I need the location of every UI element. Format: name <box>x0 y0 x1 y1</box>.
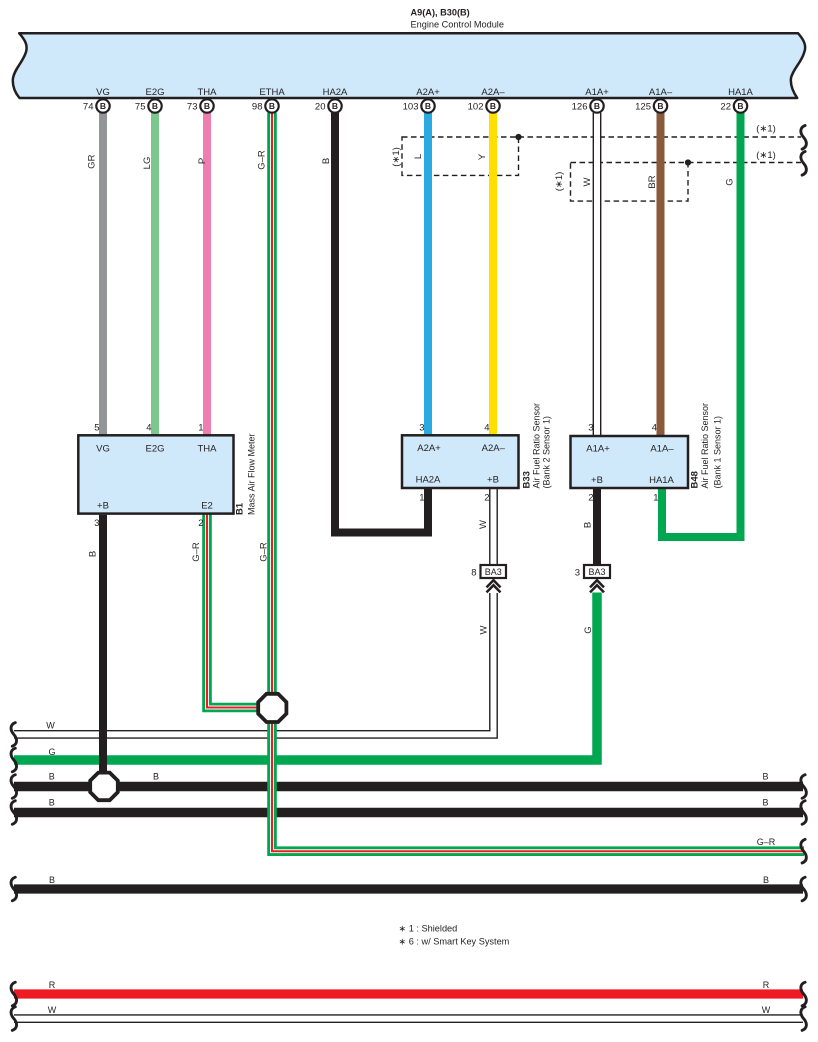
svg-text:VG: VG <box>96 87 110 98</box>
wire G-R: junction J1 down and right to edge <box>272 720 804 851</box>
continuation brace bus B1 left <box>11 775 17 799</box>
shield dashed box around L and Y wires (*1) <box>402 137 519 175</box>
continuation brace wire G-R right <box>801 839 807 863</box>
svg-text:126: 126 <box>572 102 588 113</box>
svg-text:HA2A: HA2A <box>323 87 348 98</box>
wire B: ECM HA2A 20 to B33 pin 1 <box>335 113 428 533</box>
svg-text:+B: +B <box>487 475 499 486</box>
svg-text:B: B <box>100 101 106 111</box>
svg-text:B: B <box>583 522 594 528</box>
svg-text:103: 103 <box>403 102 419 113</box>
svg-text:HA2A: HA2A <box>416 475 441 486</box>
junction J1 octagon (G-R splice) <box>258 694 286 722</box>
svg-text:B: B <box>762 797 768 807</box>
svg-text:B: B <box>762 771 768 781</box>
continuation brace shield line 2 right <box>801 152 807 176</box>
bus W: shield wire from BA3 pin 8 to left edge <box>14 593 494 735</box>
continuation brace bus B2 right <box>801 801 807 825</box>
svg-text:Y: Y <box>477 153 488 160</box>
wire P: ECM THA 73 to B1 pin 1 <box>203 113 211 436</box>
bus B ground 2 <box>14 808 803 818</box>
svg-text:2: 2 <box>484 493 489 504</box>
svg-text:W: W <box>582 177 593 186</box>
svg-text:Air Fuel Ratio Sensor: Air Fuel Ratio Sensor <box>532 403 542 489</box>
svg-text:B: B <box>594 101 600 111</box>
shield dashed line 2 to right edge (*1) <box>688 162 801 164</box>
wire LG: ECM E2G 75 to B1 pin 4 <box>151 113 159 436</box>
wire B: B1 +B pin 3 down to junction J2 <box>99 515 107 780</box>
svg-text:3: 3 <box>575 568 580 579</box>
svg-text:W: W <box>478 520 489 529</box>
svg-text:4: 4 <box>484 423 489 434</box>
svg-text:A1A+: A1A+ <box>585 87 609 98</box>
svg-text:74: 74 <box>83 102 94 113</box>
continuation brace bus B3 right <box>801 877 807 901</box>
svg-text:(∗1): (∗1) <box>756 150 776 161</box>
svg-text:∗ 6 : w/ Smart Key System: ∗ 6 : w/ Smart Key System <box>399 937 510 947</box>
connector BA3 pin 3 <box>584 565 610 578</box>
wire GR: ECM VG 74 to B1 pin 5 <box>99 113 107 436</box>
svg-text:B: B <box>657 101 663 111</box>
svg-text:W: W <box>762 1005 771 1015</box>
svg-text:G–R: G–R <box>757 837 776 847</box>
svg-text:HA1A: HA1A <box>649 475 674 486</box>
svg-text:B48: B48 <box>690 471 701 488</box>
svg-text:B: B <box>88 551 99 557</box>
wire G: ECM HA1A 22 to B48 pin 1 <box>662 113 741 537</box>
svg-text:B: B <box>49 797 55 807</box>
svg-text:Engine Control Module: Engine Control Module <box>411 19 504 29</box>
svg-text:B: B <box>49 771 55 781</box>
svg-text:B: B <box>332 101 338 111</box>
continuation brace bus B1 right <box>801 775 807 799</box>
svg-text:102: 102 <box>468 102 484 113</box>
svg-text:B: B <box>763 875 769 885</box>
svg-text:+B: +B <box>97 501 109 512</box>
svg-text:(∗1): (∗1) <box>554 172 565 192</box>
svg-text:B: B <box>49 875 55 885</box>
bus R power <box>14 989 803 998</box>
continuation brace bus W left <box>11 723 17 747</box>
bus G: shield wire from BA3 pin 3 to left edge <box>14 593 597 761</box>
svg-text:G: G <box>725 178 736 185</box>
continuation brace shield line 1 right <box>801 126 807 150</box>
shield dashed box around W and BR wires (*1) <box>571 163 689 202</box>
twisted-pair chevron below BA3 pin 3 <box>590 580 604 587</box>
wire G-R: ECM ETHA 98 to junction J1 <box>267 113 277 696</box>
svg-text:∗ 1 : Shielded: ∗ 1 : Shielded <box>399 924 458 934</box>
svg-text:2: 2 <box>198 518 203 529</box>
svg-text:+B: +B <box>591 475 603 486</box>
svg-text:G: G <box>583 626 594 633</box>
svg-text:(Bank 2 Sensor 1): (Bank 2 Sensor 1) <box>542 416 552 489</box>
svg-text:R: R <box>763 980 770 990</box>
svg-text:Mass Air Flow Meter: Mass Air Flow Meter <box>247 433 257 515</box>
component B48 Air Fuel Ratio Sensor (Bank 1 Sensor 1) <box>571 436 689 488</box>
svg-text:ETHA: ETHA <box>259 87 285 98</box>
wire B: B48 +B pin 2 to connector BA3 pin 3 <box>593 487 601 565</box>
svg-text:B: B <box>490 101 496 111</box>
wire L: ECM A2A+ 103 to B33 pin 3 <box>424 113 432 436</box>
svg-text:R: R <box>49 980 56 990</box>
continuation brace bus B2 left <box>11 801 17 825</box>
component B33 Air Fuel Ratio Sensor (Bank 2 Sensor 1) <box>402 435 519 488</box>
svg-text:W: W <box>46 721 55 731</box>
svg-text:G–R: G–R <box>257 150 268 170</box>
svg-text:2: 2 <box>588 493 593 504</box>
svg-text:75: 75 <box>135 102 146 113</box>
svg-text:G–R: G–R <box>191 542 202 562</box>
svg-text:LG: LG <box>142 157 153 170</box>
svg-text:GR: GR <box>87 154 98 168</box>
svg-text:P: P <box>197 158 208 164</box>
continuation brace bus W bottom left <box>11 1007 17 1031</box>
continuation brace bus W bottom right <box>801 1007 807 1031</box>
bus B ground 1 <box>14 782 803 792</box>
junction J2 octagon (B ground splice) <box>90 773 118 801</box>
svg-text:A2A–: A2A– <box>481 87 505 98</box>
svg-text:B: B <box>153 771 159 781</box>
svg-text:1: 1 <box>653 493 658 504</box>
svg-text:G–R: G–R <box>259 542 270 562</box>
svg-text:1: 1 <box>198 423 203 434</box>
svg-text:W: W <box>479 625 490 634</box>
svg-text:L: L <box>413 154 424 159</box>
svg-text:B1: B1 <box>235 502 246 515</box>
wire BR: ECM A1A- 125 to B48 pin 4 <box>657 113 665 437</box>
svg-text:E2: E2 <box>201 501 213 512</box>
svg-text:B: B <box>425 101 431 111</box>
svg-text:A2A+: A2A+ <box>416 87 440 98</box>
svg-text:W: W <box>48 1005 57 1015</box>
svg-text:8: 8 <box>471 568 476 579</box>
twisted-pair chevron below BA3 pin 8 <box>487 580 501 587</box>
svg-text:THA: THA <box>198 87 218 98</box>
svg-text:98: 98 <box>252 102 263 113</box>
svg-text:(∗1): (∗1) <box>756 124 776 135</box>
component B1 Mass Air Flow Meter <box>78 435 233 513</box>
wire W: B33 +B pin 2 to connector BA3 pin 8 <box>489 487 498 565</box>
svg-text:22: 22 <box>720 102 731 113</box>
svg-text:E2G: E2G <box>145 444 164 455</box>
bus W bottom <box>14 1014 803 1023</box>
svg-text:A1A–: A1A– <box>649 87 673 98</box>
svg-text:125: 125 <box>635 102 651 113</box>
connector BA3 pin 8 <box>481 565 507 578</box>
ECM A9/B30 Engine Control Module band <box>13 33 805 98</box>
continuation brace bus R right <box>801 982 807 1006</box>
svg-text:BA3: BA3 <box>588 567 605 577</box>
svg-text:B: B <box>204 101 210 111</box>
svg-text:BA3: BA3 <box>485 567 502 577</box>
svg-text:B: B <box>321 158 332 164</box>
svg-text:(∗1): (∗1) <box>391 147 402 167</box>
bus B ground 3 <box>14 884 803 893</box>
continuation brace bus R left <box>11 982 17 1006</box>
svg-text:THA: THA <box>198 444 218 455</box>
svg-text:3: 3 <box>419 423 424 434</box>
continuation brace bus G left <box>11 748 17 772</box>
svg-text:4: 4 <box>146 423 151 434</box>
svg-text:B: B <box>152 101 158 111</box>
svg-text:1: 1 <box>419 493 424 504</box>
svg-text:20: 20 <box>315 102 326 113</box>
svg-text:A1A+: A1A+ <box>586 444 610 455</box>
svg-text:3: 3 <box>588 423 593 434</box>
svg-text:5: 5 <box>94 423 99 434</box>
svg-text:BR: BR <box>647 175 658 188</box>
shield dashed line to right edge (*1) <box>519 136 802 138</box>
wire Y: ECM A2A- 102 to B33 pin 4 <box>489 113 497 436</box>
svg-text:A9(A), B30(B): A9(A), B30(B) <box>411 8 470 18</box>
svg-text:4: 4 <box>652 423 657 434</box>
continuation brace bus B3 left <box>11 877 17 901</box>
svg-text:(Bank 1 Sensor 1): (Bank 1 Sensor 1) <box>713 416 723 489</box>
wire W: ECM A1A+ 126 to B48 pin 3 <box>593 113 602 437</box>
shield junction dot <box>515 134 521 140</box>
svg-text:73: 73 <box>187 102 198 113</box>
svg-text:G: G <box>48 747 55 757</box>
svg-text:VG: VG <box>96 444 110 455</box>
svg-text:A1A–: A1A– <box>650 444 674 455</box>
svg-text:HA1A: HA1A <box>728 87 753 98</box>
svg-text:A2A+: A2A+ <box>417 443 441 454</box>
svg-text:B: B <box>269 101 275 111</box>
svg-text:Air Fuel Ratio Sensor: Air Fuel Ratio Sensor <box>700 403 710 489</box>
wire G-R: B1 E2 pin 2 to junction J1 <box>207 513 260 708</box>
svg-text:3: 3 <box>94 518 99 529</box>
shield junction dot 2 <box>685 159 691 165</box>
svg-text:B: B <box>737 101 743 111</box>
svg-text:A2A–: A2A– <box>482 443 506 454</box>
svg-text:E2G: E2G <box>145 87 164 98</box>
